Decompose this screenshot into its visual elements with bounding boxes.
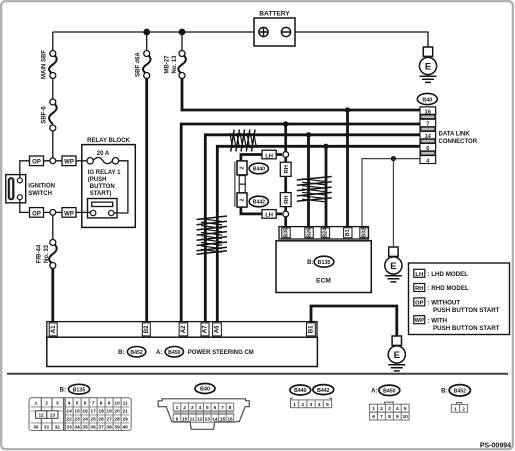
svg-text:E: E bbox=[390, 261, 396, 272]
svg-text:B:: B: bbox=[307, 260, 313, 266]
connector diagram B452 body bbox=[451, 403, 467, 413]
svg-text:B442: B442 bbox=[317, 388, 330, 394]
svg-text:2: 2 bbox=[45, 401, 48, 407]
svg-text:OP: OP bbox=[415, 300, 424, 306]
svg-text:9: 9 bbox=[108, 401, 111, 407]
svg-text:22: 22 bbox=[66, 417, 72, 423]
LH box lower bbox=[262, 210, 276, 219]
svg-text:2: 2 bbox=[462, 406, 465, 412]
wire OP1 to ignition switch top bbox=[20, 161, 30, 178]
svg-text:E: E bbox=[425, 61, 431, 72]
svg-text:31: 31 bbox=[44, 424, 50, 430]
svg-text:START): START) bbox=[90, 191, 112, 197]
svg-text:33: 33 bbox=[66, 425, 72, 431]
svg-text:PS-00994: PS-00994 bbox=[480, 443, 511, 450]
section divider bbox=[7, 373, 508, 375]
svg-text:BUTTON: BUTTON bbox=[90, 184, 115, 190]
svg-text:8: 8 bbox=[100, 401, 103, 407]
svg-text:29: 29 bbox=[123, 417, 129, 423]
wire ECM B24 vertical (thick) bbox=[325, 146, 328, 227]
fuse SBF #6A bbox=[143, 51, 151, 79]
svg-text:SBF #6A: SBF #6A bbox=[136, 52, 142, 77]
wire WP1 to relay fuse bbox=[76, 160, 87, 162]
CM pin B2 bbox=[142, 323, 150, 336]
wire CM B1 to ground E bottom (thick) bbox=[311, 306, 397, 336]
B135 sub boxes 12 13 bbox=[36, 411, 47, 419]
svg-text:7: 7 bbox=[380, 414, 383, 420]
legend box bbox=[409, 263, 510, 335]
svg-text:No. 13: No. 13 bbox=[172, 55, 178, 74]
LH box upper bbox=[262, 150, 276, 159]
svg-text:30: 30 bbox=[33, 424, 39, 430]
svg-text:B450: B450 bbox=[168, 350, 181, 356]
wire DLC pin 14 net to pin A7 (thick) bbox=[205, 135, 420, 323]
relay IG RELAY 1 bbox=[88, 199, 118, 218]
ignition switch circuit bbox=[20, 161, 91, 240]
svg-text:PUSH BUTTON START: PUSH BUTTON START bbox=[433, 307, 500, 314]
fuse F/B-44 No.33 bbox=[49, 240, 57, 269]
svg-text:PUSH BUTTON START: PUSH BUTTON START bbox=[433, 325, 500, 332]
svg-text:2: 2 bbox=[240, 198, 246, 201]
svg-text:WP: WP bbox=[415, 318, 424, 324]
svg-text:4: 4 bbox=[68, 401, 71, 407]
svg-text:9: 9 bbox=[176, 416, 179, 422]
connector diagram B440/B442 body bbox=[291, 398, 332, 407]
svg-text:5: 5 bbox=[326, 402, 329, 408]
svg-text:7: 7 bbox=[92, 401, 95, 407]
data link connector pin column bbox=[420, 107, 436, 164]
svg-text:B:: B: bbox=[60, 388, 66, 394]
svg-text:B40: B40 bbox=[422, 97, 432, 103]
fuse 20A in relay block bbox=[87, 157, 119, 164]
svg-text:WP: WP bbox=[64, 160, 74, 166]
RH box upper bbox=[280, 162, 291, 176]
twisted pair A7/A6 bbox=[197, 216, 228, 254]
svg-text:LH: LH bbox=[265, 213, 273, 219]
legend OP box bbox=[414, 298, 425, 306]
CM pin A2 bbox=[179, 323, 188, 336]
svg-text:IG RELAY 1: IG RELAY 1 bbox=[88, 170, 121, 176]
svg-text:B1: B1 bbox=[308, 325, 315, 333]
node ground tap on pin4 wire bbox=[391, 156, 396, 161]
svg-text:WP: WP bbox=[64, 211, 74, 217]
wire top rail left (battery positive feed) bbox=[53, 31, 254, 33]
svg-text:2: 2 bbox=[301, 402, 304, 408]
svg-text:10: 10 bbox=[403, 414, 409, 420]
wire MB-27 drop bbox=[181, 32, 183, 51]
connector diagram B40 body bbox=[158, 399, 249, 430]
svg-text:B135: B135 bbox=[73, 387, 86, 393]
svg-text:23: 23 bbox=[74, 417, 80, 423]
OP box lower bbox=[30, 208, 44, 218]
legend RH box bbox=[414, 284, 425, 292]
svg-text:(PUSH: (PUSH bbox=[88, 177, 107, 183]
svg-text:RH: RH bbox=[284, 195, 290, 203]
svg-text:B40: B40 bbox=[200, 387, 210, 393]
svg-text:12: 12 bbox=[197, 416, 203, 422]
node B1 tap on pin16 wire bbox=[345, 107, 350, 112]
B452 pin numbers bbox=[454, 406, 465, 412]
svg-text:SWITCH: SWITCH bbox=[28, 191, 52, 197]
connector B440 oval bbox=[249, 163, 268, 174]
svg-text:3: 3 bbox=[56, 401, 59, 407]
svg-text:14: 14 bbox=[425, 134, 432, 140]
svg-text:B442: B442 bbox=[253, 200, 266, 206]
wire circle2 down to ECM B35 bbox=[284, 217, 287, 228]
connector B40 oval (data link) bbox=[417, 93, 437, 104]
svg-text:1: 1 bbox=[372, 406, 375, 412]
svg-text:17: 17 bbox=[90, 409, 96, 415]
svg-text:A1: A1 bbox=[50, 325, 57, 333]
battery bbox=[254, 18, 295, 46]
svg-text:B452: B452 bbox=[130, 350, 143, 356]
svg-text:B440: B440 bbox=[253, 167, 266, 173]
svg-text:LH: LH bbox=[415, 272, 423, 278]
svg-text:36: 36 bbox=[90, 425, 96, 431]
svg-text:RH: RH bbox=[415, 286, 423, 292]
wire F/B-44 to pin A1 (thick) bbox=[51, 269, 54, 323]
svg-text:: WITHOUT: : WITHOUT bbox=[428, 300, 461, 307]
RH box lower bbox=[280, 193, 291, 207]
svg-text:34: 34 bbox=[74, 425, 80, 431]
svg-text:8: 8 bbox=[229, 405, 232, 411]
wire DLC pin 4 to ECM B32 (thin) bbox=[362, 159, 420, 228]
svg-text:1: 1 bbox=[293, 402, 296, 408]
svg-text:A2: A2 bbox=[180, 325, 187, 333]
svg-text:7: 7 bbox=[426, 122, 429, 128]
svg-text:16: 16 bbox=[82, 409, 88, 415]
svg-text:13: 13 bbox=[205, 416, 211, 422]
svg-text:37: 37 bbox=[98, 425, 104, 431]
svg-text:RH: RH bbox=[284, 165, 290, 173]
svg-text:15: 15 bbox=[220, 416, 226, 422]
svg-text:E: E bbox=[394, 350, 400, 361]
svg-text:24: 24 bbox=[82, 417, 88, 423]
svg-text:A:: A: bbox=[371, 389, 377, 395]
svg-text:18: 18 bbox=[98, 409, 104, 415]
wire circle1 to RH1 to RH2 to circle2 bbox=[284, 157, 287, 211]
wire ignition switch bottom to OP2 bbox=[20, 200, 30, 213]
connector diagram B135 body bbox=[29, 398, 131, 431]
wire MB-27 to DLC pin 16 (thick) bbox=[182, 79, 420, 111]
svg-text:7: 7 bbox=[221, 405, 224, 411]
wire ECM B1 vertical (thick) bbox=[346, 110, 349, 228]
CM pin A6 bbox=[213, 323, 222, 336]
wire SBF-6 to node OP/WP upper bbox=[52, 131, 54, 158]
CM pin B1 bbox=[307, 323, 316, 336]
svg-text:4: 4 bbox=[318, 402, 321, 408]
svg-text:: WITH: : WITH bbox=[428, 317, 448, 324]
svg-text:B26: B26 bbox=[306, 228, 312, 238]
inline connector body bbox=[239, 176, 245, 185]
twisted pair ECM B26/B24 bbox=[297, 177, 332, 203]
svg-text:2: 2 bbox=[240, 166, 246, 169]
fuse MAIN SBF bbox=[49, 51, 57, 79]
svg-text:32: 32 bbox=[55, 424, 61, 430]
svg-text:B:: B: bbox=[441, 389, 447, 395]
svg-text:4: 4 bbox=[396, 406, 399, 412]
ECM pin B32 bbox=[360, 228, 368, 238]
legend LH box bbox=[414, 269, 425, 277]
CM pin A1 bbox=[49, 323, 57, 336]
WP box upper bbox=[62, 156, 76, 166]
wire ECM B26 vertical (thick) bbox=[307, 135, 310, 228]
connector diagram B442 oval bbox=[313, 385, 334, 395]
svg-text:16: 16 bbox=[425, 109, 431, 115]
node LH junction lower bbox=[283, 211, 289, 217]
fuse SBF-6 bbox=[49, 99, 57, 131]
svg-text:POWER STEERING CM: POWER STEERING CM bbox=[188, 350, 254, 356]
ignition switch terminals bbox=[17, 178, 22, 183]
svg-text:1: 1 bbox=[35, 401, 38, 407]
node ECM B26 tap bbox=[306, 132, 311, 137]
svg-text:3: 3 bbox=[191, 405, 194, 411]
svg-text:F/B-44: F/B-44 bbox=[37, 244, 43, 263]
ground E top right bbox=[419, 47, 436, 82]
wire MAIN SBF to SBF-6 bbox=[52, 78, 54, 99]
wire SBF #6A drop bbox=[146, 32, 148, 51]
svg-text:BATTERY: BATTERY bbox=[259, 11, 290, 18]
wire OP2 to node lower bbox=[44, 211, 63, 213]
svg-text:9: 9 bbox=[396, 414, 399, 420]
node junction MB-27 tap bbox=[179, 29, 184, 34]
svg-text:6: 6 bbox=[426, 146, 429, 152]
connector diagram B450 body bbox=[370, 402, 410, 420]
wire WP2 into relay block bbox=[76, 211, 90, 213]
ground E middle bbox=[385, 247, 402, 282]
svg-text:13: 13 bbox=[50, 413, 56, 419]
svg-text:6: 6 bbox=[372, 414, 375, 420]
fuse MB-27 No.13 bbox=[178, 51, 186, 79]
node junction SBF #6A tap bbox=[144, 29, 149, 34]
svg-text:3: 3 bbox=[310, 402, 313, 408]
wire DLC pin 7 net to pin A2 (thick) bbox=[181, 124, 420, 323]
svg-text:5: 5 bbox=[76, 401, 79, 407]
svg-text:No. 33: No. 33 bbox=[44, 244, 50, 263]
svg-text:1: 1 bbox=[454, 406, 457, 412]
svg-text:5: 5 bbox=[404, 406, 407, 412]
svg-text:16: 16 bbox=[227, 416, 233, 422]
svg-text:14: 14 bbox=[66, 409, 72, 415]
ECM pin strip bbox=[279, 227, 369, 239]
ECM pin B1 bbox=[344, 228, 352, 238]
svg-text:2: 2 bbox=[183, 405, 186, 411]
svg-text:B135: B135 bbox=[318, 260, 331, 266]
svg-text:3: 3 bbox=[388, 406, 391, 412]
svg-text:2: 2 bbox=[380, 406, 383, 412]
B40 pin grid bbox=[173, 403, 234, 422]
wire B442 pin 2 to LH2 bbox=[241, 207, 282, 214]
svg-text:14: 14 bbox=[212, 416, 218, 422]
svg-text:LH: LH bbox=[265, 153, 273, 159]
wire LH1 left to B440 pin 2 bbox=[241, 155, 282, 163]
node ECM B24 tap bbox=[323, 144, 328, 149]
svg-text:4: 4 bbox=[198, 405, 201, 411]
svg-text:A:: A: bbox=[156, 350, 162, 356]
svg-text:B450: B450 bbox=[383, 389, 396, 395]
svg-text:B:: B: bbox=[118, 350, 124, 356]
wire 20A fuse to relay contact bbox=[114, 161, 128, 213]
svg-text:28: 28 bbox=[114, 417, 120, 423]
connector B442 oval bbox=[249, 196, 268, 207]
svg-text:: RHD MODEL: : RHD MODEL bbox=[428, 285, 469, 292]
svg-text:RELAY BLOCK: RELAY BLOCK bbox=[87, 138, 130, 144]
svg-text:26: 26 bbox=[98, 417, 104, 423]
svg-text:CONNECTOR: CONNECTOR bbox=[439, 139, 478, 145]
svg-text:12: 12 bbox=[39, 413, 45, 419]
svg-text:B440: B440 bbox=[294, 388, 307, 394]
connector diagram B40 label bbox=[195, 384, 215, 394]
wire to ground E middle (thin) bbox=[392, 159, 394, 247]
wire top rail right (battery negative to ground) bbox=[295, 32, 428, 47]
svg-text:5: 5 bbox=[206, 405, 209, 411]
connector B442 pin 2 box bbox=[237, 193, 247, 207]
svg-text:B35: B35 bbox=[283, 228, 289, 238]
ECM pin B35 bbox=[282, 228, 290, 238]
legend WP box bbox=[414, 316, 425, 324]
wire node upper to OP1 bbox=[44, 160, 63, 162]
svg-text:1: 1 bbox=[176, 405, 179, 411]
svg-text:B2: B2 bbox=[143, 325, 150, 333]
B40 pin numbers bbox=[176, 405, 233, 422]
node B440 loop tap bbox=[283, 121, 288, 126]
node LH junction upper bbox=[283, 152, 289, 158]
svg-text:38: 38 bbox=[106, 425, 112, 431]
svg-text:B32: B32 bbox=[361, 228, 367, 238]
wire node lower down to F/B-44 bbox=[52, 215, 54, 239]
B440/B442 loop wires (LH path) bbox=[241, 124, 286, 228]
ECM pin B26 bbox=[305, 228, 313, 238]
inline connector bracket bbox=[234, 162, 236, 207]
wire DLC pin 6 net to pin A6 (thick) bbox=[217, 146, 420, 322]
svg-text:39: 39 bbox=[114, 425, 120, 431]
ground E bottom bbox=[388, 336, 405, 371]
svg-text:11: 11 bbox=[123, 401, 128, 407]
B450 pin numbers bbox=[372, 406, 408, 420]
svg-text:OP: OP bbox=[32, 160, 41, 166]
svg-text:DATA LINK: DATA LINK bbox=[439, 132, 471, 138]
svg-text:6: 6 bbox=[84, 401, 87, 407]
svg-text:MB-27: MB-27 bbox=[165, 55, 171, 74]
svg-text:OP: OP bbox=[32, 211, 41, 217]
wire MAIN SBF drop bbox=[52, 32, 54, 51]
node OP/WP lower bbox=[50, 210, 56, 216]
ignition switch body bbox=[6, 175, 26, 203]
WP box lower bbox=[62, 208, 76, 218]
B440/B442 pin numbers bbox=[293, 402, 329, 408]
svg-text:MAIN SBF: MAIN SBF bbox=[42, 50, 48, 79]
svg-text:27: 27 bbox=[106, 417, 112, 423]
svg-text:11: 11 bbox=[190, 416, 195, 422]
svg-text:ECM: ECM bbox=[316, 277, 331, 284]
ECM pin B24 bbox=[321, 228, 329, 238]
relay block box bbox=[82, 145, 136, 228]
svg-text:40: 40 bbox=[123, 425, 129, 431]
svg-text:B452: B452 bbox=[454, 389, 467, 395]
relay terminals bbox=[91, 210, 96, 215]
svg-text:19: 19 bbox=[106, 409, 112, 415]
node OP/WP upper bbox=[50, 158, 56, 164]
svg-text:: LHD MODEL: : LHD MODEL bbox=[428, 271, 469, 278]
svg-text:A6: A6 bbox=[214, 325, 221, 333]
connector diagram B440 oval bbox=[290, 385, 311, 395]
wire node to LH1 bbox=[284, 124, 287, 152]
svg-text:A7: A7 bbox=[202, 325, 209, 333]
svg-text:IGNITION: IGNITION bbox=[28, 184, 55, 190]
ECM box bbox=[276, 241, 371, 293]
B135 pin numbers bbox=[33, 401, 128, 431]
svg-text:25: 25 bbox=[90, 417, 96, 423]
svg-text:B1: B1 bbox=[345, 229, 351, 236]
svg-text:6: 6 bbox=[214, 405, 217, 411]
power steering CM pin strip bbox=[47, 322, 317, 338]
svg-text:35: 35 bbox=[82, 425, 88, 431]
twisted pair DLC14/DLC6 horizontal bbox=[230, 130, 257, 152]
svg-text:SBF-6: SBF-6 bbox=[42, 106, 48, 124]
wire SBF #6A to pin B2 (thick) bbox=[145, 79, 148, 323]
svg-text:B24: B24 bbox=[323, 228, 329, 238]
svg-text:10: 10 bbox=[114, 401, 120, 407]
svg-text:21: 21 bbox=[123, 409, 129, 415]
svg-text:8: 8 bbox=[388, 414, 391, 420]
connector B440 pin 2 box bbox=[237, 161, 247, 175]
OP box upper bbox=[30, 156, 44, 166]
svg-text:20 A: 20 A bbox=[97, 151, 110, 157]
svg-text:10: 10 bbox=[182, 416, 188, 422]
svg-text:15: 15 bbox=[74, 409, 80, 415]
power steering CM box bbox=[47, 337, 318, 366]
svg-text:20: 20 bbox=[114, 409, 120, 415]
CM pin A7 bbox=[201, 323, 209, 336]
